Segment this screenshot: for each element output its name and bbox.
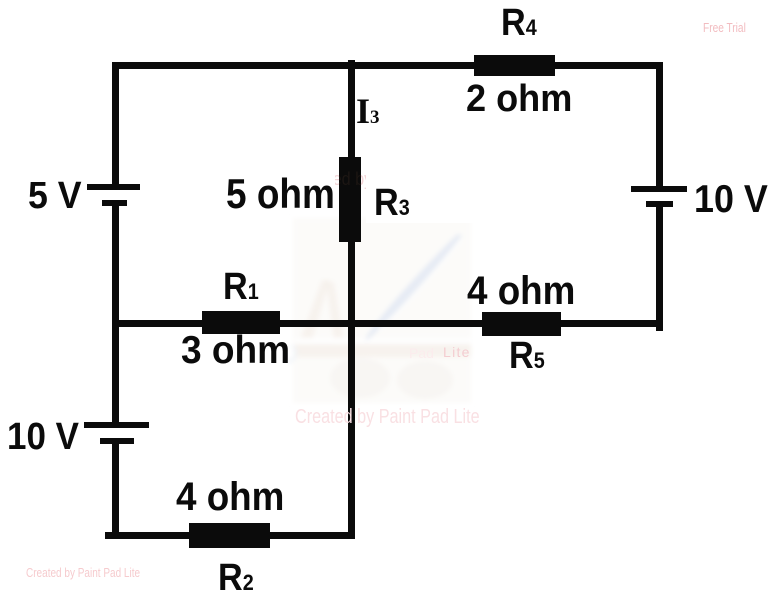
label 10 V (right battery)	[694, 180, 768, 219]
resistor R3 body	[339, 157, 361, 242]
label 4 ohm (R2)	[176, 477, 284, 517]
label R2	[218, 559, 254, 597]
battery V3 10V left: long plate	[84, 422, 149, 428]
wire: center vertical (top wire through R3 to bottom wire)	[348, 60, 355, 539]
watermark text row behind 5-ohm label (fragment "ed b" visible)	[293, 170, 478, 188]
wire: top horizontal	[112, 62, 663, 69]
resistor R1 body	[202, 311, 280, 334]
resistor R4 body	[474, 55, 555, 76]
wire: left vertical lower (10V battery to bottom wire)	[112, 444, 119, 539]
battery V3 10V left: short plate	[100, 438, 134, 444]
label R4	[501, 4, 537, 42]
resistor R5 body	[482, 312, 561, 336]
battery V2 10V right: long plate	[631, 186, 687, 192]
label R1	[223, 268, 259, 306]
resistor R2 body	[189, 523, 270, 548]
wire: right vertical lower (10V battery to middle wire)	[656, 207, 663, 331]
watermark text row near R5 (fragment "Lite" visible)	[409, 346, 434, 360]
label 5 ohm	[226, 173, 335, 215]
wire: left vertical upper (top wire to 5V battery)	[112, 62, 119, 185]
battery V1 5V: long plate	[87, 184, 140, 190]
label 4 ohm (R5)	[467, 271, 575, 311]
wire: bottom horizontal	[105, 532, 355, 539]
label I3 current label	[356, 93, 380, 129]
label 2 ohm	[466, 80, 572, 118]
white label backgrounds	[222, 168, 335, 213]
label 10 V (left battery)	[7, 418, 79, 456]
wire: middle horizontal	[112, 320, 663, 327]
label R3	[374, 184, 410, 222]
label 5 V	[28, 177, 82, 215]
wire: right vertical upper (top wire to 10V battery)	[656, 62, 663, 186]
watermark text: Created by Paint Pad Lite (bottom left)	[26, 566, 140, 579]
wire: left vertical middle (5V battery to 10V battery)	[112, 205, 119, 423]
watermark fragment "d b" painted over R3 body	[339, 157, 361, 242]
watermark text: Created by Paint Pad Lite (center)	[295, 407, 480, 427]
battery V2 10V right: short plate	[646, 201, 673, 207]
battery V1 5V: short plate	[102, 200, 127, 206]
watermark text: Free Trial (top right)	[703, 21, 746, 34]
label 3 ohm	[181, 331, 290, 370]
label R5	[509, 337, 545, 375]
